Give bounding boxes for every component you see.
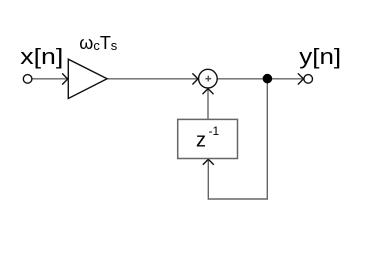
svg-text:x[n]: x[n] [20, 44, 63, 69]
svg-text:z: z [196, 130, 206, 152]
svg-text:y[n]: y[n] [299, 44, 341, 69]
svg-text:-1: -1 [209, 124, 220, 138]
svg-text:ωcTs: ωcTs [79, 33, 117, 53]
